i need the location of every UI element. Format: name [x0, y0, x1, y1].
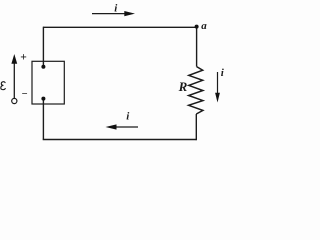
current arrow bottom (pointing left)	[106, 124, 139, 129]
node a dot	[195, 25, 199, 29]
battery bottom terminal dot	[41, 97, 45, 101]
svg-text:i: i	[114, 3, 118, 15]
current arrow top (pointing right)	[92, 11, 135, 16]
wire bottom	[43, 139, 197, 141]
wire left upper (top-left corner down to battery top terminal)	[42, 27, 44, 67]
svg-text:i: i	[126, 111, 130, 123]
emf arrow (pointing up)	[11, 54, 17, 104]
wire left lower (battery bottom terminal down to bottom-left corner)	[42, 99, 44, 140]
svg-text:a: a	[201, 20, 207, 32]
svg-text:R: R	[178, 79, 188, 94]
emf source box	[32, 61, 64, 104]
wire right lower (resistor bottom down to bottom-right corner)	[195, 114, 197, 140]
battery top terminal dot	[41, 65, 45, 69]
label epsilon (emf)	[1, 82, 6, 90]
svg-text:+: +	[20, 51, 27, 63]
svg-text:−: −	[22, 89, 28, 100]
wire right upper (node a down to resistor top)	[196, 27, 198, 67]
wire top (top-left corner to node a)	[43, 26, 197, 28]
resistor R zigzag	[189, 67, 203, 114]
svg-text:i: i	[221, 67, 225, 79]
current arrow right (pointing down, beside resistor)	[215, 72, 220, 103]
